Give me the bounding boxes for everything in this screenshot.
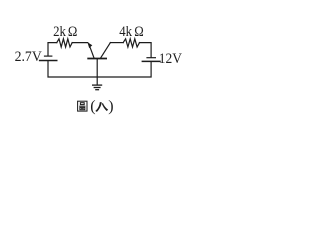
- transistor Q1 emitter arrowhead: [87, 42, 92, 48]
- battery B1 2.7V short plate: [44, 55, 53, 57]
- battery B2 12V long plate: [142, 60, 161, 62]
- svg-text:4k: 4k: [119, 24, 132, 40]
- svg-text:2k: 2k: [53, 24, 66, 40]
- transistor Q1 emitter line: [89, 44, 94, 58]
- wire R1 to emitter arrow: [72, 42, 88, 44]
- svg-text:Ω: Ω: [68, 24, 78, 40]
- resistor R2 4k zigzag: [123, 39, 139, 47]
- svg-text:): ): [108, 98, 113, 115]
- wire collector to R2: [110, 42, 123, 44]
- ground bar 1: [92, 84, 102, 86]
- wire bottom rail: [48, 61, 151, 77]
- caption CJK eight glyph: [95, 102, 102, 112]
- svg-text:(: (: [90, 98, 95, 115]
- transistor Q1 base bar: [87, 58, 107, 60]
- transistor Q1 collector line: [101, 43, 111, 58]
- wire top-right branch: [140, 43, 152, 58]
- ground bar 2: [94, 87, 101, 89]
- caption figure-8 CJK tu glyph: [78, 101, 87, 111]
- battery B2 12V short plate: [146, 57, 156, 59]
- wire top-left branch: [48, 43, 57, 56]
- ground bar 3: [95, 89, 99, 91]
- transistor Q1 base lead to ground: [96, 59, 98, 84]
- svg-text:12V: 12V: [159, 51, 182, 67]
- svg-text:Ω: Ω: [134, 24, 144, 40]
- battery B1 2.7V long plate: [39, 60, 58, 62]
- resistor R1 2k zigzag: [57, 39, 72, 47]
- svg-text:2.7V: 2.7V: [15, 49, 42, 65]
